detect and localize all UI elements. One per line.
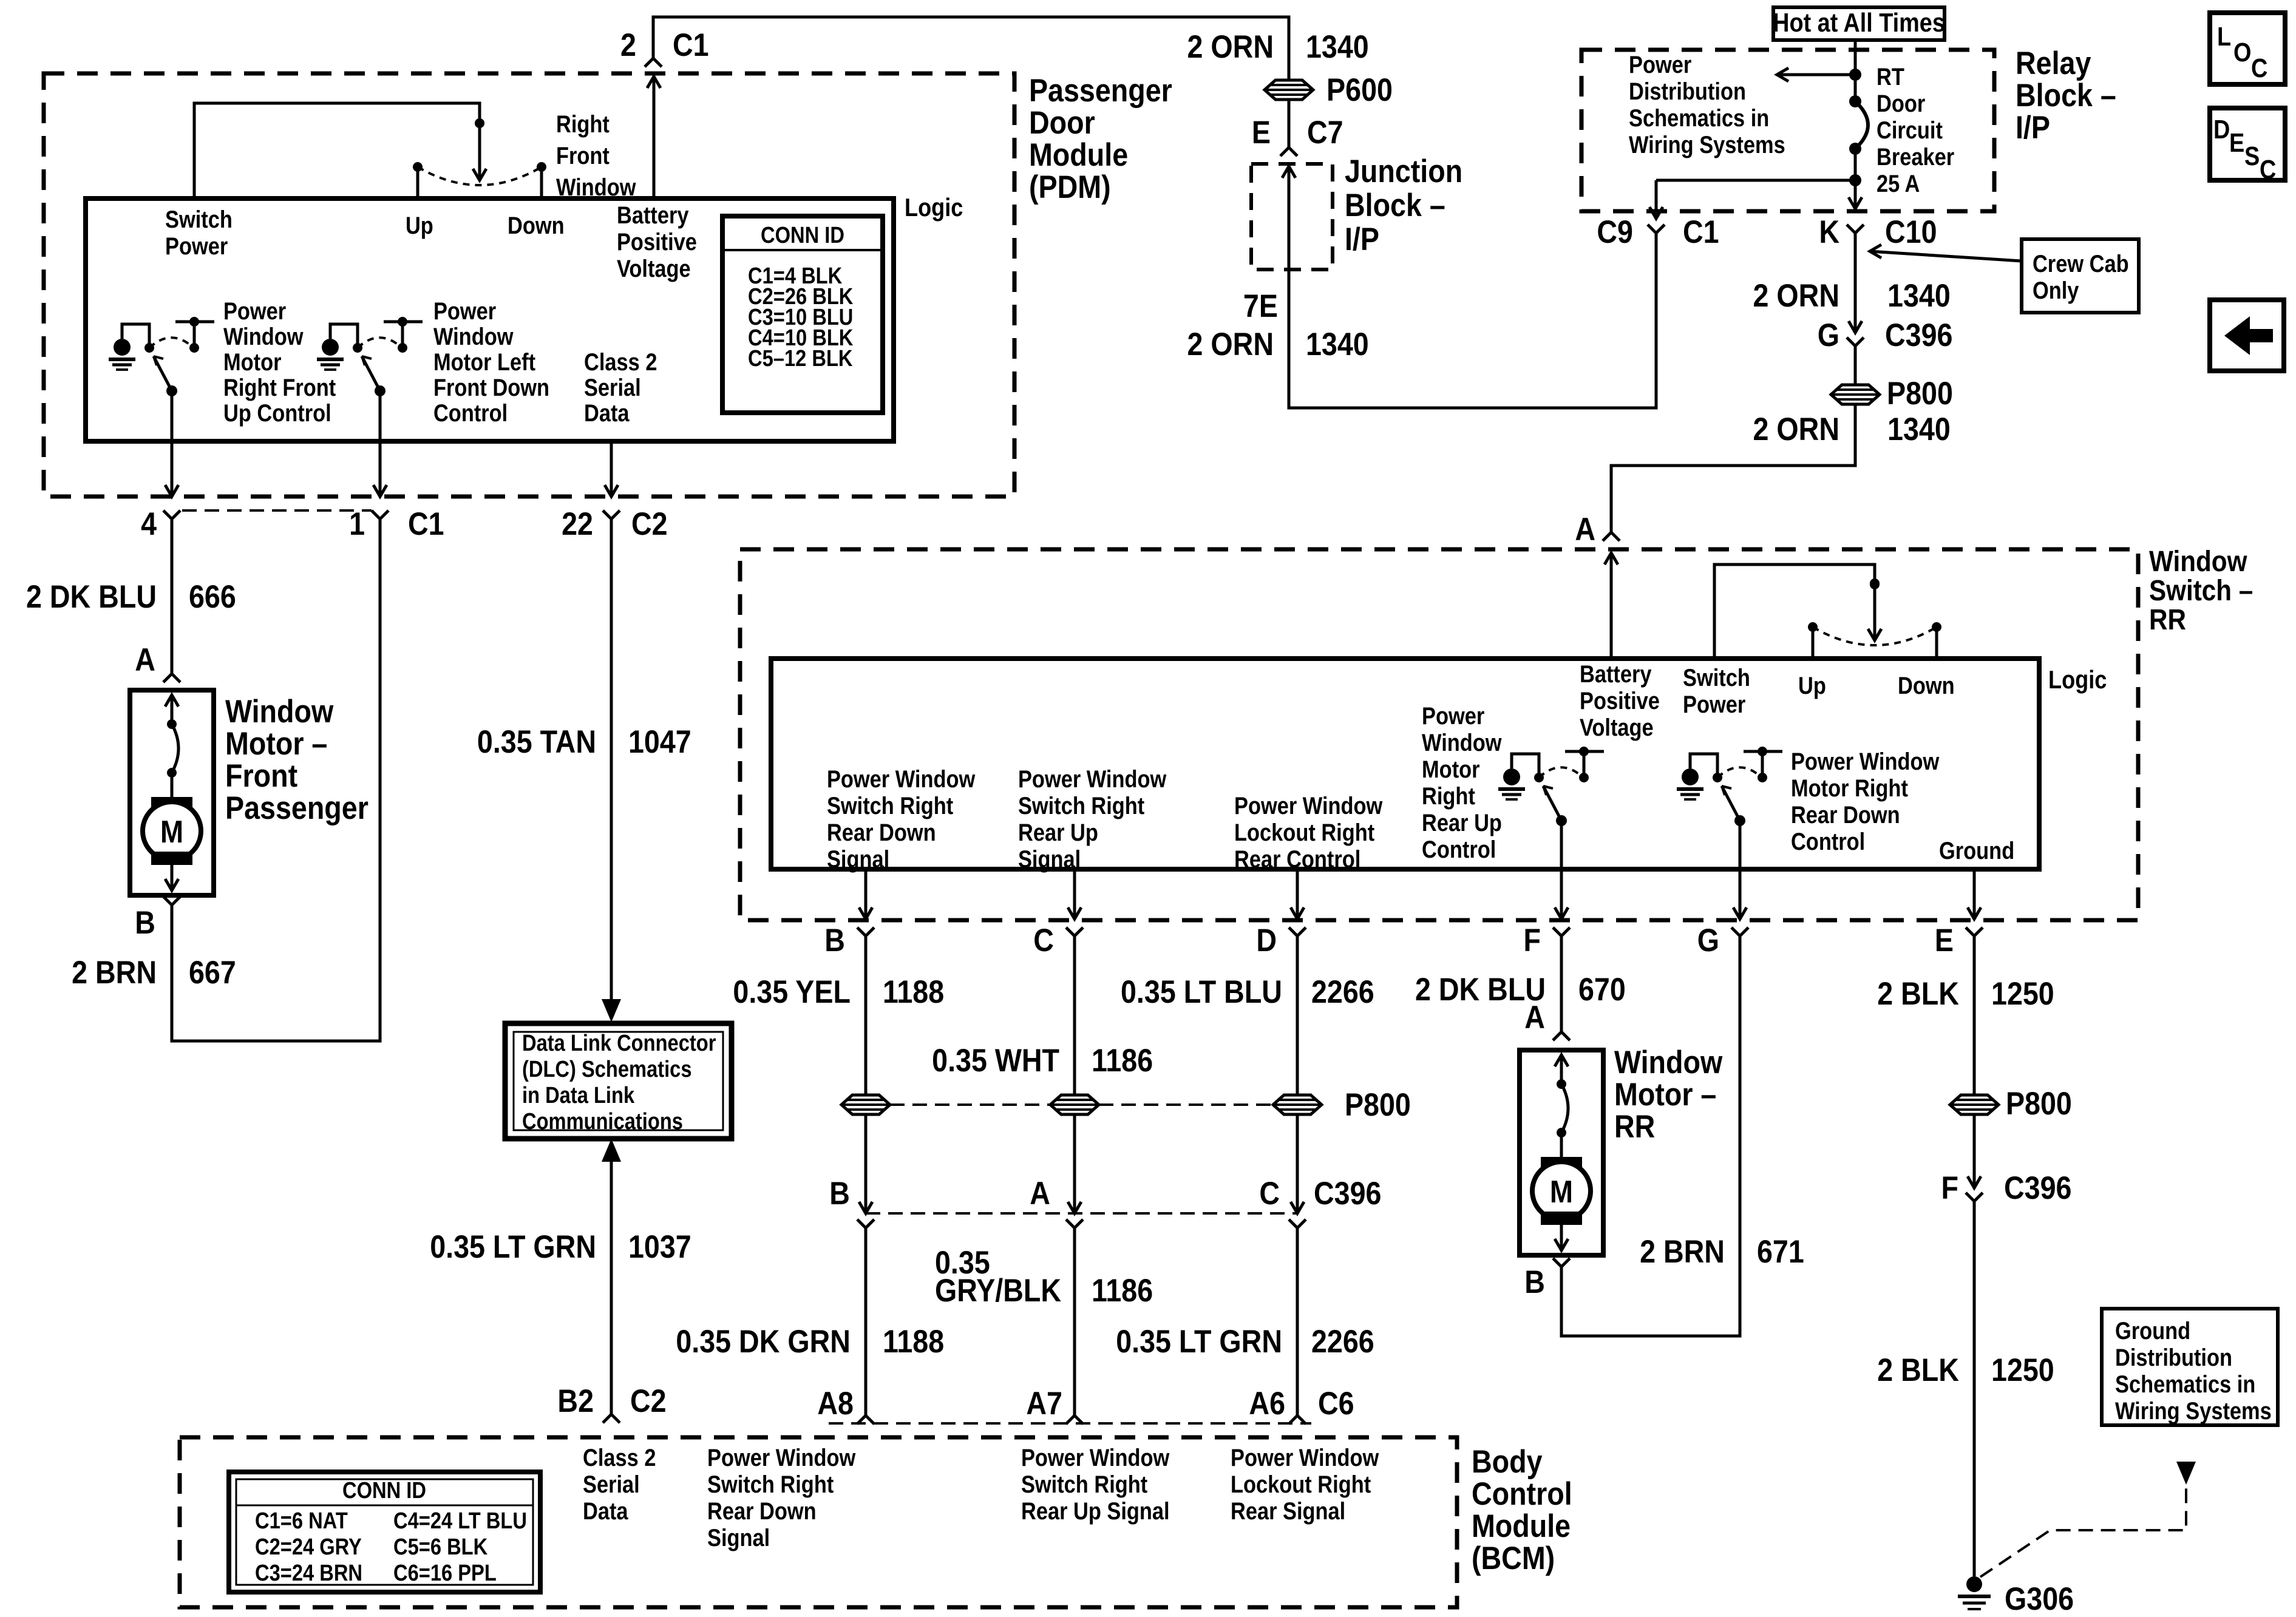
svg-text:CONN ID: CONN ID	[342, 1477, 426, 1503]
svg-text:A: A	[1524, 999, 1545, 1035]
svg-text:Passenger: Passenger	[225, 790, 369, 825]
svg-text:in Data Link: in Data Link	[522, 1082, 634, 1108]
svg-text:Power: Power	[1422, 702, 1484, 730]
svg-text:666: 666	[189, 578, 236, 614]
svg-text:Relay: Relay	[2016, 45, 2091, 81]
svg-text:C396: C396	[1314, 1175, 1381, 1211]
wire switch power feed RR	[1714, 564, 1875, 659]
wire class 2 serial data circuit 1037 from BCM to DLC	[602, 1139, 621, 1162]
connector fork below B	[857, 1219, 874, 1228]
svg-text:2 BRN: 2 BRN	[1640, 1233, 1725, 1269]
svg-text:0.35 LT BLU: 0.35 LT BLU	[1121, 974, 1282, 1009]
wire P800 to door boundary D	[1296, 1114, 1299, 1213]
svg-text:C2: C2	[631, 506, 668, 541]
junction dot breaker top	[1849, 69, 1861, 81]
svg-text:Rear Control: Rear Control	[1234, 846, 1360, 873]
svg-text:Schematics in: Schematics in	[2115, 1371, 2255, 1398]
svg-text:Switch Right: Switch Right	[1018, 792, 1144, 819]
CONN ID table BCM	[229, 1472, 540, 1592]
svg-text:C1: C1	[1683, 214, 1719, 249]
svg-text:Ground: Ground	[1939, 837, 2014, 864]
svg-text:Battery: Battery	[617, 202, 689, 229]
svg-text:Rear Down: Rear Down	[1791, 801, 1900, 829]
svg-text:E: E	[2229, 127, 2244, 157]
svg-text:Data: Data	[583, 1497, 628, 1525]
svg-text:F: F	[1524, 922, 1541, 958]
connector C1 pin 4 fork	[163, 510, 180, 519]
svg-text:1340: 1340	[1887, 411, 1951, 447]
wire circuit 671 motor RR B to switch pin G	[1561, 936, 1740, 1336]
connector C7 pin E fork	[1280, 147, 1297, 156]
svg-text:0.35 TAN: 0.35 TAN	[477, 724, 596, 759]
svg-text:Window: Window	[556, 174, 636, 201]
svg-text:L: L	[2217, 21, 2231, 51]
svg-text:G: G	[1697, 922, 1719, 958]
connector C396 pin G inline	[1849, 321, 1862, 333]
svg-text:Up: Up	[1798, 672, 1826, 699]
svg-text:Power: Power	[1629, 51, 1691, 78]
svg-text:Power: Power	[165, 232, 228, 260]
wire pin E ground	[1973, 869, 1976, 919]
junction dot breaker branch	[1849, 174, 1861, 186]
svg-text:Right: Right	[1422, 782, 1475, 810]
svg-text:Window: Window	[225, 693, 333, 729]
svg-text:Only: Only	[2033, 277, 2079, 304]
wire P800 to door boundary C	[1073, 1114, 1076, 1213]
svg-text:2266: 2266	[1311, 1323, 1374, 1359]
svg-text:I/P: I/P	[2016, 109, 2050, 145]
svg-text:0.35 LT GRN: 0.35 LT GRN	[430, 1229, 596, 1264]
wire P800 to window switch RR pin A	[1611, 404, 1855, 532]
svg-text:Voltage: Voltage	[1580, 714, 1654, 741]
wire branch to C9	[1656, 179, 1855, 182]
connector C1 pin C9 fork	[1648, 225, 1665, 233]
svg-text:GRY/BLK: GRY/BLK	[935, 1272, 1061, 1308]
svg-text:Wiring Systems: Wiring Systems	[2115, 1397, 2272, 1425]
connector fork pin G	[1731, 927, 1748, 936]
svg-text:Block –: Block –	[2016, 77, 2116, 113]
wire circuit 667 from motor B to PDM pin 1	[172, 519, 380, 1041]
svg-text:Distribution: Distribution	[1629, 78, 1746, 105]
connector fork pin D	[1289, 927, 1306, 936]
wire junction block to relay C9	[1289, 166, 1656, 408]
svg-text:C396: C396	[2004, 1170, 2071, 1205]
svg-text:2 ORN: 2 ORN	[1187, 326, 1274, 362]
svg-text:Data: Data	[584, 399, 630, 427]
window switch RR logic box	[771, 659, 2039, 869]
svg-text:0.35 DK GRN: 0.35 DK GRN	[676, 1323, 851, 1359]
connector fork below C	[1066, 1219, 1083, 1228]
wire P800 to C396 pin F	[1973, 1114, 1976, 1188]
svg-text:Window: Window	[2149, 544, 2247, 577]
svg-text:Power: Power	[433, 297, 496, 325]
wire PDM pin 4	[171, 391, 174, 497]
svg-text:Signal: Signal	[827, 846, 889, 873]
connector P800 pass-through D	[1273, 1095, 1322, 1114]
svg-text:Window: Window	[433, 323, 514, 350]
svg-text:Circuit: Circuit	[1877, 117, 1943, 144]
Crew Cab Only box	[2022, 239, 2139, 313]
svg-text:Signal: Signal	[707, 1524, 770, 1551]
svg-text:Down: Down	[508, 212, 565, 239]
switch power window motor right front up control	[166, 385, 177, 396]
switch power window motor right rear down control	[1734, 815, 1745, 826]
svg-text:B: B	[824, 922, 845, 958]
connector C2 pin B2 fork BCM	[603, 1414, 620, 1423]
svg-text:Switch Right: Switch Right	[827, 792, 953, 819]
svg-text:2 BRN: 2 BRN	[72, 954, 157, 990]
connector pin A fork window switch RR	[1603, 532, 1620, 541]
svg-text:Ground: Ground	[2115, 1317, 2190, 1344]
svg-text:Door: Door	[1877, 90, 1925, 117]
svg-text:Switch Right: Switch Right	[1021, 1471, 1147, 1498]
wire to BCM pin A6	[1296, 1228, 1299, 1415]
svg-text:C: C	[1033, 922, 1054, 958]
svg-text:Motor: Motor	[1422, 756, 1480, 783]
svg-text:1188: 1188	[883, 974, 944, 1009]
svg-text:4: 4	[141, 506, 157, 541]
svg-text:Control: Control	[1422, 836, 1496, 863]
svg-text:Up Control: Up Control	[223, 399, 331, 427]
svg-text:K: K	[1819, 214, 1839, 249]
wire switch pole G to box bottom	[1739, 821, 1742, 919]
wire P800 to door boundary B	[864, 1114, 868, 1213]
junction dot rocker feed RR	[1870, 580, 1880, 589]
switch power window motor left front down control	[375, 385, 385, 396]
connector fork pin C	[1066, 927, 1083, 936]
Passenger Door Module dashed box	[44, 73, 1014, 497]
svg-text:Right: Right	[556, 110, 610, 138]
svg-text:1037: 1037	[628, 1229, 691, 1264]
svg-text:A: A	[135, 642, 155, 677]
PDM logic box	[86, 198, 894, 441]
svg-text:Power Window: Power Window	[1234, 792, 1383, 819]
svg-text:1340: 1340	[1306, 29, 1369, 64]
Window Switch RR dashed box	[740, 549, 2138, 920]
svg-text:Motor –: Motor –	[1614, 1076, 1716, 1112]
wire K C10 down	[1854, 233, 1857, 333]
svg-text:0.35 YEL: 0.35 YEL	[733, 974, 851, 1009]
svg-text:0.35 LT GRN: 0.35 LT GRN	[1116, 1323, 1282, 1359]
svg-text:Power: Power	[1683, 691, 1745, 718]
svg-text:G306: G306	[2005, 1581, 2074, 1616]
svg-text:S: S	[2244, 141, 2260, 171]
connector P800 pass-through right	[1831, 385, 1880, 404]
wire window switch RR pin C	[1073, 869, 1076, 919]
svg-text:667: 667	[189, 954, 236, 990]
svg-text:Power Window: Power Window	[1021, 1444, 1170, 1471]
svg-text:Signal: Signal	[1018, 846, 1081, 873]
svg-text:C7: C7	[1307, 114, 1343, 150]
svg-text:Front Down: Front Down	[433, 374, 549, 401]
svg-text:Up: Up	[406, 212, 433, 239]
Ground Distribution box	[2102, 1309, 2278, 1425]
svg-text:B: B	[829, 1175, 850, 1211]
svg-text:Door: Door	[1029, 104, 1095, 140]
svg-text:A8: A8	[817, 1385, 854, 1421]
svg-text:Switch Right: Switch Right	[707, 1471, 834, 1498]
wire PDM pin 1	[379, 391, 382, 497]
svg-text:P800: P800	[2006, 1085, 2072, 1121]
svg-text:Control: Control	[1472, 1476, 1572, 1511]
svg-text:Logic: Logic	[2048, 666, 2107, 694]
svg-text:Power Window: Power Window	[1231, 1444, 1379, 1471]
svg-text:C: C	[2251, 53, 2267, 83]
window motor front passenger	[130, 690, 214, 895]
svg-text:1186: 1186	[1092, 1272, 1153, 1308]
svg-text:Schematics in: Schematics in	[1629, 104, 1769, 132]
svg-text:1340: 1340	[1887, 277, 1951, 313]
svg-text:Block –: Block –	[1345, 187, 1445, 223]
wire to BCM pin A7	[1073, 1228, 1076, 1415]
svg-text:2 ORN: 2 ORN	[1187, 29, 1274, 64]
wire to BCM pin A8	[864, 1228, 868, 1415]
svg-text:P800: P800	[1887, 375, 1953, 411]
connector C1 pin 1 fork	[372, 510, 389, 519]
wire from hot feed into breaker	[1854, 40, 1857, 102]
svg-text:B: B	[135, 904, 155, 940]
svg-text:Rear Up Signal: Rear Up Signal	[1021, 1497, 1170, 1525]
connector P800 pass-through C	[1050, 1095, 1099, 1114]
wire circuit 1250 upper	[1973, 936, 1976, 1095]
svg-text:Crew Cab: Crew Cab	[2033, 250, 2129, 277]
wire circuit 666 to window motor front passenger	[171, 519, 174, 674]
svg-text:2266: 2266	[1311, 974, 1374, 1009]
svg-text:Rear Down: Rear Down	[707, 1497, 817, 1525]
svg-text:Switch: Switch	[1683, 664, 1750, 691]
svg-text:0.35 WHT: 0.35 WHT	[932, 1042, 1059, 1078]
connector P800 pass-through ground	[1950, 1095, 1999, 1114]
svg-text:Rear Signal: Rear Signal	[1231, 1497, 1345, 1525]
svg-text:P600: P600	[1326, 72, 1393, 107]
svg-text:Rear Up: Rear Up	[1422, 809, 1502, 836]
svg-text:E: E	[1935, 922, 1954, 958]
svg-text:Distribution: Distribution	[2115, 1344, 2232, 1371]
connector BCM pin A7 fork	[1066, 1415, 1083, 1424]
connector P600 pass-through	[1265, 80, 1313, 100]
wire battery feed from PDM C1 pin 2 to P600	[653, 17, 1289, 80]
svg-text:2 ORN: 2 ORN	[1753, 411, 1840, 447]
connector pin B fork motor RR	[1553, 1258, 1570, 1267]
wire pin B to P800	[864, 936, 868, 1095]
svg-text:1186: 1186	[1092, 1042, 1153, 1078]
svg-text:B2: B2	[557, 1383, 594, 1419]
svg-text:Class 2: Class 2	[584, 348, 657, 376]
svg-text:C5=6 BLK: C5=6 BLK	[393, 1534, 488, 1560]
svg-text:2 BLK: 2 BLK	[1877, 975, 1959, 1011]
svg-text:A: A	[1575, 511, 1595, 547]
svg-text:Passenger: Passenger	[1029, 72, 1172, 108]
svg-text:Window: Window	[1614, 1044, 1722, 1080]
svg-text:C: C	[2260, 154, 2276, 184]
svg-text:1188: 1188	[883, 1323, 944, 1359]
wire pin C to P800	[1073, 936, 1076, 1095]
svg-text:A: A	[1030, 1175, 1050, 1211]
svg-text:C6: C6	[1318, 1385, 1354, 1421]
arrow reference box	[2210, 300, 2284, 371]
svg-text:671: 671	[1757, 1233, 1804, 1269]
svg-text:2 DK BLU: 2 DK BLU	[26, 578, 157, 614]
ground G306	[1966, 1576, 1982, 1592]
svg-text:1250: 1250	[1991, 1352, 2054, 1388]
svg-text:F: F	[1941, 1170, 1958, 1205]
svg-text:Switch: Switch	[165, 206, 233, 233]
svg-text:Switch –: Switch –	[2149, 574, 2253, 606]
svg-text:Power: Power	[223, 297, 286, 325]
svg-text:C5–12 BLK: C5–12 BLK	[748, 345, 853, 371]
svg-text:Class 2: Class 2	[583, 1444, 656, 1471]
svg-text:Power Window: Power Window	[1018, 765, 1167, 793]
svg-text:2: 2	[620, 27, 636, 63]
door boundary dashed line	[182, 509, 372, 512]
svg-text:Body: Body	[1472, 1443, 1543, 1479]
svg-text:(BCM): (BCM)	[1472, 1540, 1555, 1576]
svg-text:Motor –: Motor –	[225, 725, 327, 761]
svg-text:Communications: Communications	[522, 1108, 683, 1134]
svg-text:B: B	[1524, 1264, 1545, 1300]
LOC reference box	[2210, 13, 2285, 84]
svg-text:D: D	[2213, 114, 2230, 144]
svg-text:25 A: 25 A	[1877, 170, 1920, 197]
svg-text:C3=24 BRN: C3=24 BRN	[255, 1560, 362, 1586]
connector pin A fork motor front passenger	[163, 674, 180, 682]
door boundary dashed line middle row	[866, 1212, 1297, 1215]
CONN ID table PDM	[722, 216, 883, 413]
svg-text:O: O	[2233, 37, 2251, 67]
svg-text:CONN ID: CONN ID	[761, 222, 844, 248]
wire window switch RR pin D	[1296, 869, 1299, 919]
svg-text:M: M	[1550, 1175, 1573, 1209]
svg-text:Rear Up: Rear Up	[1018, 819, 1098, 846]
svg-text:C: C	[1259, 1175, 1280, 1211]
svg-text:RR: RR	[1614, 1108, 1655, 1144]
wire pin D to P800	[1296, 936, 1299, 1095]
wire circuit 670 to window motor RR	[1560, 936, 1563, 1032]
svg-text:(DLC) Schematics: (DLC) Schematics	[522, 1056, 692, 1082]
svg-text:Right Front: Right Front	[223, 374, 336, 401]
svg-text:Logic: Logic	[905, 194, 963, 222]
svg-text:I/P: I/P	[1345, 221, 1379, 257]
svg-text:7E: 7E	[1243, 288, 1278, 324]
switch power window motor right rear up control	[1556, 815, 1567, 826]
arrow crew cab only	[1870, 251, 2022, 261]
connector BCM pin A6 fork	[1289, 1415, 1306, 1424]
svg-text:C396: C396	[1885, 317, 1952, 353]
svg-text:G: G	[1818, 317, 1839, 353]
wire G to P800	[1854, 346, 1857, 385]
svg-text:Serial: Serial	[583, 1471, 640, 1498]
svg-text:1340: 1340	[1306, 326, 1369, 362]
svg-text:Serial: Serial	[584, 374, 641, 401]
svg-text:Module: Module	[1029, 137, 1128, 172]
wire PDM internal battery positive	[653, 76, 656, 198]
svg-text:Power Window: Power Window	[1791, 748, 1940, 775]
svg-text:Motor: Motor	[223, 348, 282, 376]
P800 dashed links	[890, 1103, 1050, 1106]
svg-text:1250: 1250	[1991, 975, 2054, 1011]
Hot at All Times box	[1773, 7, 1944, 40]
svg-text:C1: C1	[673, 27, 709, 63]
svg-text:C2=24 GRY: C2=24 GRY	[255, 1534, 362, 1560]
wire switch pole F to box bottom	[1560, 821, 1563, 919]
svg-text:C9: C9	[1597, 214, 1633, 249]
svg-text:Breaker: Breaker	[1877, 143, 1954, 171]
svg-text:Data Link Connector: Data Link Connector	[522, 1030, 716, 1056]
svg-text:2 ORN: 2 ORN	[1753, 277, 1840, 313]
svg-text:Window: Window	[1422, 729, 1502, 756]
svg-text:C10: C10	[1885, 214, 1937, 249]
connector C10 pin K fork	[1847, 225, 1864, 233]
svg-text:Battery: Battery	[1580, 660, 1652, 688]
svg-text:670: 670	[1578, 971, 1626, 1007]
svg-text:Motor Left: Motor Left	[433, 348, 535, 376]
connector C2 pin 22 fork	[603, 510, 620, 519]
connector fork pin B	[857, 927, 874, 936]
svg-text:22: 22	[562, 506, 593, 541]
svg-text:Power Window: Power Window	[707, 1444, 856, 1471]
svg-text:Junction: Junction	[1345, 153, 1462, 189]
connector fork below D	[1289, 1219, 1306, 1228]
wire PDM pin 22 class 2 serial data	[610, 441, 613, 497]
junction dot rocker feed	[475, 118, 484, 128]
connector pin A fork motor RR	[1553, 1032, 1570, 1040]
svg-text:Front: Front	[225, 758, 297, 793]
connector fork pin E	[1966, 927, 1983, 936]
svg-text:Motor Right: Motor Right	[1791, 775, 1908, 802]
svg-text:Rear Down: Rear Down	[827, 819, 936, 846]
svg-text:P800: P800	[1345, 1086, 1411, 1122]
svg-text:RT: RT	[1877, 63, 1904, 90]
connector BCM pin A8 fork	[857, 1415, 874, 1424]
svg-text:Lockout Right: Lockout Right	[1231, 1471, 1371, 1498]
wire window switch RR pin B	[864, 869, 868, 919]
svg-text:C4=24 LT BLU: C4=24 LT BLU	[393, 1508, 527, 1534]
svg-text:Down: Down	[1898, 672, 1955, 699]
svg-text:(PDM): (PDM)	[1029, 169, 1111, 205]
svg-text:C2: C2	[630, 1383, 667, 1419]
wire circuit 1250 lower to G306	[1973, 1201, 1976, 1576]
svg-text:Module: Module	[1472, 1508, 1571, 1544]
svg-text:1047: 1047	[628, 724, 691, 759]
connector pin B fork motor front passenger	[163, 897, 180, 905]
svg-text:E: E	[1252, 114, 1271, 150]
connector P800 pass-through B	[841, 1095, 890, 1114]
rocker switch up/down PDM	[475, 118, 484, 128]
wire battery positive into window switch RR	[1610, 553, 1613, 659]
svg-text:Lockout Right: Lockout Right	[1234, 819, 1374, 846]
svg-text:Front: Front	[556, 142, 610, 169]
svg-text:Control: Control	[433, 399, 508, 427]
svg-text:2 BLK: 2 BLK	[1877, 1352, 1959, 1388]
DESC reference box	[2210, 108, 2285, 180]
rocker switch up/down RR	[1870, 578, 1880, 588]
Relay Block dashed box	[1581, 50, 1994, 211]
svg-text:Positive: Positive	[1580, 687, 1660, 714]
svg-text:Positive: Positive	[617, 228, 697, 256]
connector C1 pin 2 (PDM battery positive)	[645, 58, 662, 67]
svg-text:Power Window: Power Window	[827, 765, 976, 793]
door boundary dashed line BCM pins	[829, 1422, 1311, 1425]
svg-text:A6: A6	[1249, 1385, 1285, 1421]
svg-text:C1=6 NAT: C1=6 NAT	[255, 1508, 348, 1534]
connector fork pin F	[1553, 927, 1570, 936]
wire class 2 serial data circuit 1047 to DLC	[610, 519, 613, 1000]
dashed reference route to ground distribution	[1980, 1485, 2186, 1577]
svg-text:A7: A7	[1026, 1385, 1062, 1421]
Junction Block dashed box	[1251, 164, 1333, 269]
Body Control Module dashed box	[180, 1437, 1457, 1607]
svg-text:RR: RR	[2149, 603, 2186, 636]
